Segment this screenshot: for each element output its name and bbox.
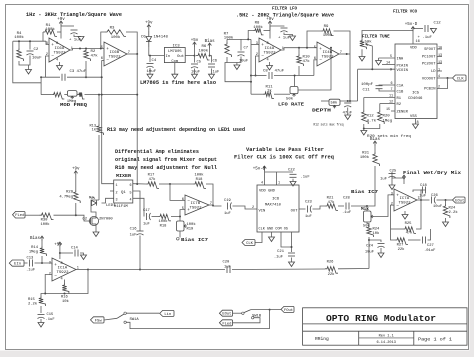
svg-text:+9v: +9v [57, 18, 65, 22]
wire r14 top [41, 241, 43, 246]
note differential amp line2 [115, 157, 217, 163]
svg-text:1uF: 1uF [224, 266, 232, 270]
wire c25 lead [392, 172, 404, 178]
ground C6 [209, 74, 215, 79]
svg-text:IC5: IC5 [412, 92, 420, 96]
label MOD FREQ [60, 102, 87, 108]
svg-text:100k: 100k [253, 25, 263, 30]
svg-text:RRing: RRing [315, 336, 329, 342]
node IC6B out [136, 53, 138, 55]
window margin right strip [470, 0, 474, 357]
wire c12 left lead [413, 28, 423, 30]
wire R3 left loop [101, 32, 105, 49]
wire c24 gnd [380, 248, 382, 253]
wire C4 hang [149, 56, 151, 62]
svg-text:100k: 100k [224, 36, 234, 41]
switch SW1B contact B [252, 317, 254, 319]
svg-text:R14: R14 [31, 246, 39, 250]
wire c24 lead [369, 240, 381, 242]
node r12 gnd [363, 128, 365, 130]
svg-text:5: 5 [182, 207, 184, 211]
wire led to pin3 [102, 198, 114, 203]
svg-text:C27: C27 [427, 244, 434, 248]
node rail C2 [29, 40, 31, 42]
connector CLK filter [242, 240, 255, 247]
svg-text:MIXER: MIXER [116, 173, 131, 179]
svg-text:R19: R19 [187, 228, 195, 232]
wire c14 gnd [80, 253, 84, 255]
svg-text:C18: C18 [420, 184, 428, 188]
capacitor C3 [62, 70, 87, 81]
op-amp IC6B [101, 42, 130, 66]
wire sw1b common [251, 309, 270, 311]
ground C15 [38, 323, 44, 328]
node depth c10 [347, 100, 349, 102]
svg-text:2: 2 [391, 203, 393, 207]
potentiometer MOD FREQ [67, 91, 77, 104]
node R2 rail [85, 76, 87, 78]
svg-text:+5v-D: +5v-D [405, 23, 418, 27]
label SW1B [252, 315, 262, 319]
power +9v osc A [57, 18, 65, 26]
node ic7a out [420, 199, 422, 201]
pin1 max [278, 182, 280, 186]
svg-text:100pF: 100pF [361, 83, 374, 87]
node tune join [371, 68, 373, 70]
wire r18 to out [206, 184, 213, 206]
svg-text:47uF: 47uF [275, 70, 285, 74]
ground MAX7410 [269, 237, 275, 242]
svg-text:TS922: TS922 [264, 52, 277, 56]
title FILTER LFO [272, 7, 297, 12]
op-amp IC4A [256, 38, 284, 63]
wire fb down [45, 270, 88, 294]
svg-text:R2: R2 [91, 50, 96, 54]
wire R8 right [264, 30, 271, 32]
node lfo fb [330, 47, 332, 49]
svg-text:R1: R1 [397, 97, 402, 101]
svg-text:1Hz - 3KHz Triangle/Square Wav: 1Hz - 3KHz Triangle/Square Wave [26, 12, 122, 18]
wire osc A bottom rail [41, 76, 60, 78]
svg-text:22k: 22k [398, 247, 406, 252]
wire depth left [321, 100, 329, 102]
wire R10 top lead [298, 48, 300, 54]
wire gnd stub f [276, 172, 278, 185]
svg-text:+5v-D: +5v-D [253, 168, 266, 172]
node +5v out [194, 55, 196, 57]
label FILTER TUNE [362, 36, 390, 40]
svg-text:47k: 47k [149, 177, 157, 182]
wire fled to r30 [25, 214, 40, 216]
node minus join lfo [255, 75, 257, 77]
wire r25 bottom [368, 237, 370, 269]
resistor R4 [14, 32, 24, 61]
note R20 sets min freq [367, 134, 412, 139]
node pot top [294, 75, 296, 77]
svg-text:CLK: CLK [457, 78, 465, 82]
svg-text:Final Wet/Dry Mix: Final Wet/Dry Mix [403, 171, 461, 176]
svg-text:100k: 100k [323, 33, 333, 38]
svg-text:VSS: VSS [410, 115, 418, 119]
bias IC7 terminal [177, 238, 180, 241]
connector EOut bypass [219, 310, 232, 317]
svg-text:4: 4 [267, 59, 269, 63]
wire minus input IC6A loop [46, 56, 50, 77]
note R13 [107, 127, 245, 133]
wire pin6 out [133, 183, 146, 185]
wire C5 gnd [194, 69, 196, 75]
opto-fet Q1 H11F1M [114, 180, 133, 203]
svg-text:.1uF: .1uF [26, 269, 36, 273]
wire q2 gate [76, 215, 88, 221]
resistor R9 [321, 25, 334, 38]
wire pin1 feed vertical [102, 60, 114, 183]
wire filter vdd rail [265, 171, 294, 173]
ground R4 C2 [26, 70, 32, 75]
svg-text:8: 8 [56, 42, 58, 46]
resistor R5 mod freq [52, 92, 65, 99]
wire c21 gnd [291, 258, 293, 263]
svg-text:EIn: EIn [14, 263, 21, 267]
subtitle FILTER LFO [236, 12, 334, 18]
wire vss stub [415, 119, 417, 125]
svg-text:VDD GND: VDD GND [259, 190, 276, 194]
resistor R25 [367, 225, 380, 237]
node vcoout [447, 77, 449, 79]
wire IC6A output [70, 49, 104, 51]
wire R1 right to +9v line [57, 31, 61, 33]
pin12 label [389, 101, 393, 105]
power +5v ic7a [402, 175, 406, 180]
wire r29 top [75, 176, 77, 190]
node 137 94 [136, 94, 138, 96]
svg-text:Bias: Bias [370, 137, 381, 142]
svg-text:VCOOUT: VCOOUT [422, 78, 436, 82]
svg-text:TS922: TS922 [190, 207, 203, 211]
node lfo left 81 [250, 81, 252, 83]
ground C22 [290, 182, 296, 187]
svg-text:VCOIN: VCOIN [397, 69, 408, 73]
wire c22 gnd [292, 179, 294, 182]
wire pot r19 top [179, 217, 181, 222]
wire R3 right loop [126, 32, 137, 54]
ground R24 [443, 222, 449, 227]
svg-text:SW1A: SW1A [130, 318, 140, 322]
note variable low pass line1 [246, 147, 324, 153]
svg-text:TS922: TS922 [54, 52, 67, 56]
svg-text:R9: R9 [324, 25, 329, 29]
svg-text:Lin: Lin [164, 312, 171, 317]
svg-text:6: 6 [130, 184, 132, 188]
svg-text:2N7000: 2N7000 [99, 218, 113, 222]
pin15 label [386, 108, 390, 112]
svg-text:Mix: Mix [361, 207, 369, 212]
wire r13 to led and q2 drain [91, 200, 99, 216]
capacitor C27 [423, 237, 437, 254]
note differential amp line3 [115, 165, 217, 171]
ground C5 [192, 74, 198, 79]
svg-text:PC1OUT: PC1OUT [422, 56, 436, 60]
svg-text:EOut: EOut [455, 200, 464, 204]
wire r12 r20 join [364, 124, 380, 129]
capacitor C9 [278, 28, 291, 41]
pin3 mixer [116, 199, 118, 203]
wire R7 top rail [226, 39, 228, 42]
wire ld stub [437, 70, 442, 72]
svg-text:Filter CLK is 100X Cut Off Fre: Filter CLK is 100X Cut Off Freq [234, 154, 334, 160]
svg-text:C22: C22 [288, 169, 296, 173]
capacitor C25 [380, 170, 397, 182]
wire c12 right [430, 28, 434, 30]
svg-text:2: 2 [116, 192, 118, 196]
wire lfo rail right [274, 75, 314, 77]
svg-text:R15: R15 [28, 298, 36, 302]
pin1 mixer [116, 184, 118, 188]
wire c16 down to rail [139, 236, 141, 270]
svg-text:1uF: 1uF [143, 223, 151, 227]
title block date [376, 341, 395, 345]
svg-text:C8: C8 [263, 70, 268, 74]
svg-text:5: 5 [101, 46, 103, 50]
svg-text:MOD FREQ: MOD FREQ [60, 102, 87, 108]
wire r27 to c27 [408, 239, 421, 241]
label Final Wet/Dry Mix [403, 171, 461, 176]
power +5v ic1a [54, 242, 62, 248]
wire IC4A out [281, 48, 317, 50]
wire c28 to mix [351, 206, 367, 211]
title block RRing [315, 336, 329, 342]
svg-text:TS922: TS922 [399, 202, 412, 206]
op-amp IC7A [391, 189, 420, 211]
ground FILTER TUNE [359, 57, 365, 62]
wire IC6B output down [136, 54, 138, 184]
pin9 label [390, 68, 392, 72]
resistor R7 [224, 32, 234, 57]
svg-text:2.2k: 2.2k [449, 210, 459, 215]
wire res to pot [64, 94, 67, 96]
resistor R15 [28, 296, 45, 307]
wire pot right to diff amp [85, 94, 138, 96]
svg-text:R12 sets max freq: R12 sets max freq [314, 123, 344, 128]
node 101 94 [101, 94, 103, 96]
svg-text:+9v: +9v [266, 18, 274, 22]
capacitor C10 [343, 103, 353, 116]
label D1 [141, 36, 146, 40]
wire IC3 out to +5v [185, 55, 194, 57]
svg-text:100k: 100k [40, 222, 50, 227]
pin4 max [261, 182, 263, 186]
pin7 label [391, 88, 393, 92]
resistor R26 [325, 261, 338, 278]
switch SW1A [117, 312, 139, 323]
wire R4 top [18, 41, 20, 48]
wire top rail osc A [13, 40, 46, 42]
wire pin2 stub [110, 190, 114, 192]
svg-text:R18: R18 [160, 225, 168, 229]
svg-text:6: 6 [182, 198, 184, 202]
wire r14 bottom [41, 256, 43, 263]
svg-text:5: 5 [314, 46, 316, 50]
svg-text:1k: 1k [267, 88, 272, 93]
wire r29 bottom [75, 203, 77, 215]
ground C12 [431, 29, 437, 34]
wire gnd drop vco [363, 129, 365, 131]
svg-text:R24: R24 [449, 207, 457, 211]
capacitor C23 [305, 201, 313, 220]
capacitor C13 [26, 257, 36, 273]
svg-text:D1: D1 [141, 36, 146, 40]
switch SW1B contact A [242, 312, 244, 314]
title block page [418, 338, 452, 343]
svg-text:10k: 10k [62, 299, 70, 304]
note variable low pass line2 [234, 154, 334, 160]
svg-text:Bias IC7: Bias IC7 [351, 190, 378, 195]
svg-text:CLK: CLK [246, 242, 254, 246]
wire out pin [299, 208, 306, 210]
svg-text:11: 11 [389, 95, 393, 99]
svg-text:.01uF: .01uF [424, 249, 436, 253]
wire depth right [340, 100, 358, 102]
ground IC4A pin4 [267, 66, 273, 71]
node bias [209, 55, 211, 57]
title block divider 1 [358, 331, 360, 345]
label 1N4148 [154, 36, 169, 40]
connector Lin [160, 310, 174, 317]
wire dry rail a [88, 269, 225, 271]
svg-text:CLK GND COM OS: CLK GND COM OS [259, 228, 288, 232]
title block bottom row line [303, 330, 467, 332]
svg-text:C23: C23 [305, 201, 313, 205]
wire R9 right loop [334, 31, 351, 101]
svg-text:3: 3 [256, 42, 258, 46]
wire R1 pin [364, 97, 395, 99]
svg-text:R12: R12 [367, 115, 375, 119]
wire c27 right [428, 229, 431, 240]
node r9 in [306, 47, 308, 49]
wire c26 to eout [437, 199, 453, 201]
svg-text:R17: R17 [148, 174, 155, 178]
label H11F1M [114, 205, 128, 209]
wire lfo pot right [298, 48, 331, 90]
svg-text:16: 16 [416, 40, 420, 44]
svg-text:2: 2 [252, 206, 254, 210]
pin16 label [416, 40, 420, 44]
svg-text:5: 5 [130, 192, 132, 196]
wire r15 top [41, 294, 45, 297]
svg-text:1Meg: 1Meg [383, 120, 393, 124]
node r19 pot [179, 216, 181, 218]
wire c18 loop [421, 190, 423, 200]
ground R7 C7 [234, 65, 240, 70]
power +5v-D vco [405, 23, 418, 32]
wire IC3 com down [174, 63, 176, 75]
wire D1 to IC3 in [149, 47, 165, 56]
diode D1 [146, 31, 152, 47]
wire c13 to plus [35, 263, 53, 265]
wire tune bottom [361, 49, 363, 56]
svg-text:IC1A: IC1A [58, 267, 68, 271]
wire C10 gnd [347, 108, 349, 116]
pin8 label vss [417, 121, 419, 125]
pin10 label [438, 47, 442, 51]
svg-text:PCAIN: PCAIN [397, 65, 408, 69]
resistor R2 [84, 49, 99, 62]
svg-text:IC7A: IC7A [400, 197, 410, 201]
wire IC6A pin4 stub [59, 62, 61, 66]
ground IC6A pin4 [57, 66, 63, 71]
svg-text:R21: R21 [327, 197, 335, 201]
wire R8 left drop [248, 31, 253, 40]
svg-text:R25: R25 [405, 222, 413, 226]
svg-text:100k: 100k [187, 222, 197, 227]
svg-text:C21: C21 [277, 250, 285, 254]
node c24 [368, 239, 370, 241]
svg-text:47k: 47k [328, 200, 336, 205]
capacitor C6 [208, 60, 220, 75]
svg-text:+9v: +9v [72, 168, 80, 172]
op-amp IC1A [49, 258, 79, 282]
wire modfreq left lead [41, 94, 52, 96]
svg-text:5: 5 [390, 55, 392, 59]
resistor R12 [362, 110, 377, 124]
svg-text:10: 10 [438, 47, 442, 51]
svg-text:+9v: +9v [145, 21, 153, 25]
svg-text:9: 9 [390, 68, 392, 72]
wire r24 top [445, 200, 447, 204]
wire ic1a out [76, 269, 88, 271]
svg-text:1: 1 [438, 69, 440, 73]
svg-text:VDD: VDD [410, 47, 418, 51]
wire r23 right [416, 200, 421, 229]
wire R7C7 down loop [225, 63, 251, 82]
svg-text:47k: 47k [91, 54, 99, 59]
wire bias down [209, 48, 211, 56]
svg-text:47k: 47k [406, 231, 414, 236]
svg-text:C6: C6 [213, 60, 218, 64]
svg-text:13: 13 [438, 54, 442, 58]
resistor R31 [360, 152, 380, 167]
node ic1a out [87, 269, 89, 271]
pin6 label [391, 82, 393, 86]
svg-text:VIN: VIN [259, 210, 266, 214]
pin11 label [389, 95, 393, 99]
wire lfo pot top [294, 76, 296, 87]
svg-text:1: 1 [278, 182, 280, 186]
wire c23 to r21 [313, 206, 326, 209]
resistor R27 [395, 238, 408, 252]
svg-text:C5: C5 [197, 61, 202, 65]
wire sw1a bottom throw [126, 322, 269, 328]
wire plus feed IC4A [251, 44, 259, 46]
pin4 mixer [130, 199, 132, 203]
svg-text:C1A: C1A [397, 85, 405, 89]
svg-text:R10: R10 [303, 56, 311, 60]
node R3 plus input [100, 48, 102, 50]
wire fb lower left [391, 229, 396, 240]
svg-text:10uF: 10uF [365, 251, 375, 255]
wire gnd pin max [271, 232, 273, 237]
resistor R10 [297, 54, 311, 66]
pin2 label [438, 86, 440, 90]
svg-text:+ .1uF: + .1uF [418, 36, 433, 40]
svg-text:MAX7410: MAX7410 [265, 204, 282, 208]
wire IC6B out [127, 53, 137, 55]
wire +5v down [194, 47, 196, 56]
wire sfout stub [437, 48, 442, 50]
svg-text:In: In [166, 55, 171, 59]
label Q2 [83, 218, 88, 222]
wire pin4 stub [133, 198, 144, 216]
